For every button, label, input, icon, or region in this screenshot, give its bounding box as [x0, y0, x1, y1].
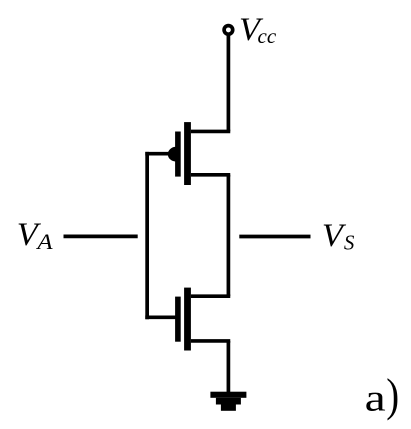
pmos gate bar: [175, 132, 181, 177]
svg-text:S: S: [344, 230, 355, 254]
input wire VA: [64, 234, 138, 238]
pmos channel bar: [184, 122, 191, 185]
output wire VS: [239, 235, 310, 239]
wire gate bus vertical: [145, 152, 149, 319]
svg-text:cc: cc: [258, 24, 277, 48]
label a): [365, 370, 399, 421]
wire output vertical (PMOS drain to NMOS drain): [227, 175, 231, 296]
nmos channel bar: [184, 288, 191, 351]
wire NMOS gate to gate bus: [145, 315, 176, 319]
svg-text:A: A: [35, 230, 53, 254]
nmos gate bar: [175, 297, 181, 342]
wire NMOS drain stub: [191, 294, 230, 298]
label Vcc: [239, 11, 277, 48]
label VA: [17, 217, 54, 255]
label VS: [322, 218, 355, 255]
svg-text:V: V: [322, 218, 346, 254]
wire PMOS drain stub: [191, 173, 230, 177]
wire PMOS gate to gate bus: [145, 152, 176, 156]
pmos transistor: [168, 122, 191, 185]
svg-text:): ): [386, 370, 399, 421]
nmos transistor: [175, 288, 191, 351]
wire NMOS source to ground: [227, 341, 231, 393]
ground symbol: [210, 392, 246, 411]
wire NMOS source stub: [191, 339, 230, 343]
svg-text:a: a: [365, 378, 386, 420]
terminal Vcc (open circle): [224, 26, 233, 35]
pmos gate bubble (filled): [168, 147, 176, 162]
wire Vcc terminal to PMOS source: [227, 34, 231, 131]
wire PMOS source stub: [191, 130, 230, 134]
